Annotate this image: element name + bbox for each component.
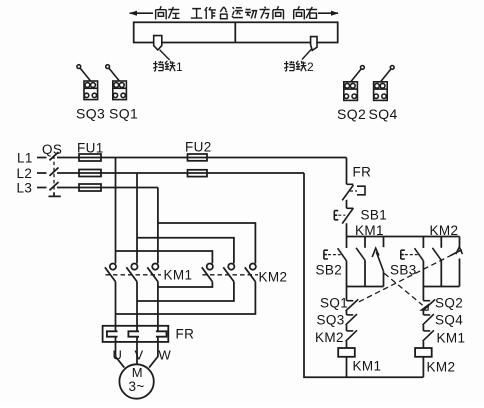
svg-text:SQ2: SQ2 [337, 106, 366, 122]
wire L3 stub [37, 187, 47, 189]
svg-text:KM1: KM1 [353, 359, 382, 374]
pushbutton SB3 (NO start right) [401, 237, 424, 287]
svg-text:V: V [135, 348, 144, 363]
wire L1 stub [37, 157, 47, 159]
wire KM1 outputs down [116, 282, 158, 332]
motor leads U V W [116, 337, 158, 368]
contact SQ2 (NC) [423, 299, 436, 315]
svg-text:KM1: KM1 [164, 268, 193, 283]
stop dog 1 (挡铁1) [154, 36, 162, 50]
dashed link SQ1 pair [359, 255, 452, 302]
wire left group bottom [347, 286, 384, 288]
wire KM2 feed A [116, 251, 213, 263]
wire control hot drop [346, 158, 348, 185]
contact SQ2 (NO, in KM1 branch) [372, 237, 383, 287]
svg-text:SQ4: SQ4 [369, 106, 398, 122]
pushbutton SB2 (NO start left) [324, 237, 347, 287]
contact SQ3 (NC) [346, 314, 357, 331]
wire left branch [346, 287, 348, 301]
contact KM2 aux (NO self-hold) [432, 237, 441, 287]
pushbutton SB1 (NC stop) [334, 208, 353, 224]
contactor KM1 main contacts [105, 264, 161, 282]
wire phase B drop [136, 173, 138, 263]
svg-text:KM2: KM2 [259, 270, 288, 285]
contact SQ1 (NC) [346, 299, 359, 315]
wire [346, 200, 348, 209]
wire right branch [422, 287, 424, 301]
contact SQ4 (NC) [423, 314, 434, 331]
svg-text:FU2: FU2 [185, 140, 212, 155]
wire KM2 output cross C [158, 282, 213, 287]
svg-text:KM2: KM2 [427, 360, 456, 375]
right direction arrow [318, 11, 339, 16]
leader line to 挡铁1 [160, 50, 170, 60]
svg-text:SQ3: SQ3 [76, 106, 105, 122]
wire coil to bottom bus [422, 357, 424, 377]
wire L2 stub [37, 172, 47, 174]
svg-text:SB2: SB2 [316, 263, 343, 278]
limit switch SQ3 (pictorial) [77, 65, 98, 100]
contactor KM2 main contacts [202, 264, 258, 282]
label 向右 [294, 6, 317, 19]
svg-text:U: U [113, 348, 123, 363]
limit switch SQ4 (pictorial) [374, 66, 395, 101]
contact KM2 interlock (NC) [346, 330, 357, 348]
leader line to 挡铁2 [302, 49, 312, 60]
stop dog 2 (挡铁2) [311, 37, 317, 51]
svg-text:KM2: KM2 [315, 330, 344, 345]
thermal contact FR (NC) [342, 184, 365, 200]
svg-text:L3: L3 [17, 181, 33, 196]
svg-text:L2: L2 [17, 166, 33, 181]
svg-text:SQ4: SQ4 [435, 313, 463, 328]
svg-text:SQ1: SQ1 [109, 106, 138, 122]
switch QS [49, 152, 61, 196]
svg-text:W: W [159, 348, 172, 363]
svg-text:2: 2 [307, 60, 314, 74]
svg-text:SQ3: SQ3 [317, 313, 345, 328]
svg-text:3~: 3~ [129, 379, 145, 394]
svg-text:KM1: KM1 [355, 223, 384, 238]
wire coil to bottom bus [346, 357, 348, 377]
wire right group bottom [423, 286, 459, 288]
coil KM2 [415, 348, 432, 357]
svg-text:KM1: KM1 [437, 331, 466, 346]
svg-text:SQ2: SQ2 [435, 296, 463, 311]
wire control bus [347, 236, 460, 238]
wire KM2 output cross A [116, 282, 256, 314]
worktable [134, 22, 338, 42]
wire phase C drop [157, 188, 159, 264]
wire L1 line [57, 157, 347, 159]
motor M 3~ [119, 364, 153, 398]
limit switch SQ1 (pictorial) [106, 65, 127, 100]
dashed link SQ2 pair [384, 273, 422, 305]
label 挡铁2 [284, 60, 314, 74]
label 挡铁1 [153, 60, 183, 74]
coil KM1 [338, 348, 355, 357]
svg-text:1: 1 [176, 60, 183, 74]
svg-text:KM2: KM2 [430, 223, 459, 238]
svg-text:L1: L1 [17, 151, 33, 166]
limit switch SQ2 (pictorial) [344, 66, 365, 101]
thermal relay FR heater box [103, 326, 169, 342]
svg-text:M: M [132, 365, 143, 380]
svg-text:FR: FR [176, 327, 195, 342]
arrow at SQ2 NC [421, 305, 428, 311]
svg-text:SQ1: SQ1 [320, 296, 348, 311]
wire to bus [346, 223, 348, 236]
wire KM2 output B [137, 282, 234, 301]
svg-text:QS: QS [42, 142, 62, 157]
wire KM2 feed B [137, 238, 234, 264]
wire control neutral (left long vertical + bottom bus) [304, 173, 423, 377]
wire phase A drop [115, 158, 117, 264]
contact SQ1 (NO, in KM2 branch) [451, 237, 463, 287]
label 工作台运动方向 [191, 6, 284, 19]
svg-text:SB3: SB3 [390, 263, 417, 278]
wire L2 line [57, 172, 304, 174]
label 向左 [156, 6, 180, 19]
wire L3 line [57, 187, 158, 189]
svg-text:FR: FR [353, 165, 372, 180]
contact KM1 aux (NO self-hold) [356, 237, 365, 287]
left direction arrow [129, 11, 153, 16]
contact KM1 interlock (NC) [423, 330, 434, 348]
wire KM2 feed C [158, 223, 256, 263]
svg-text:SB1: SB1 [361, 208, 388, 223]
